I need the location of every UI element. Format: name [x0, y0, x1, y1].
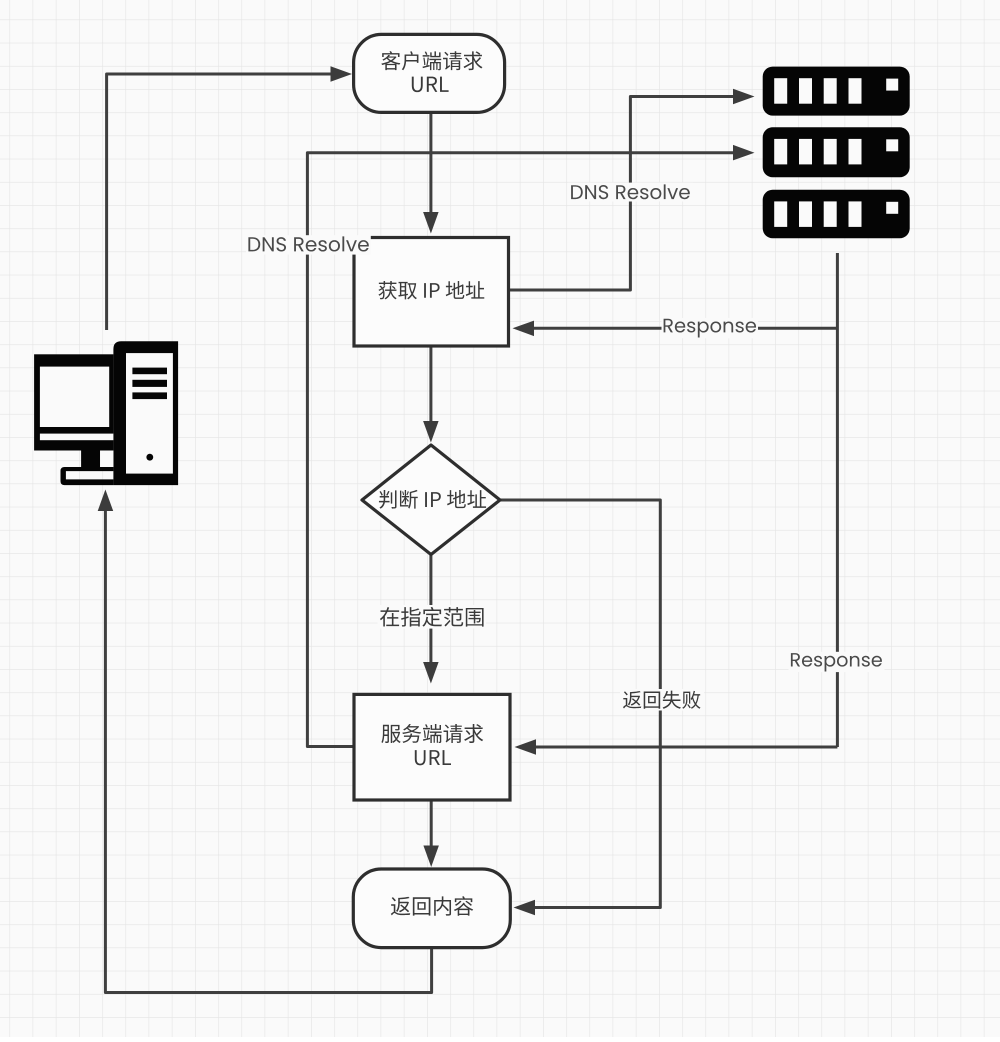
label bg: 返回失败 [620, 689, 704, 711]
arrowhead into return-content oval top [423, 846, 439, 868]
server 3 (bottom DNS server icon) [763, 190, 910, 239]
arrowhead up into computer bottom [98, 490, 114, 512]
wire: diamond right, 返回失败 to return-content oval [500, 500, 660, 908]
decision diamond: judge IP address [362, 445, 500, 555]
text: 服务端请求 (line 1 in server-request box) [381, 724, 483, 743]
arrowhead into get-IP box top [423, 212, 439, 234]
wire: get-IP box right, DNS Resolve to server 1 [509, 97, 733, 291]
label: Response (upper) [664, 319, 756, 338]
arrowhead above server-request box [423, 662, 439, 684]
computer icon: tower body [113, 341, 178, 485]
process box: server request URL [354, 694, 510, 800]
wire: return-content oval to computer (bottom feedback loop) [105, 511, 431, 993]
terminator: return content oval [353, 869, 510, 948]
arrowhead into return-content oval right edge [514, 900, 536, 915]
text: 返回内容 [391, 896, 473, 915]
wire: server-request box left, DNS Resolve to server 2 [307, 153, 733, 747]
label bg: Response (lower right) [789, 652, 885, 672]
text: 客户端请求 (line 1 in client oval) [381, 51, 482, 70]
label: 在指定范围 [380, 607, 484, 627]
computer icon: base bracket [61, 467, 114, 485]
label: DNS Resolve (right) [571, 184, 690, 199]
computer icon: tower vent 1 [132, 368, 167, 375]
computer icon: tower inner panel [126, 353, 173, 474]
label: 返回失败 [623, 691, 701, 709]
text: URL (line 2 in client oval) [412, 77, 449, 92]
text: URL (line 2 in server-request box) [415, 750, 451, 765]
computer icon: tower vent 3 [132, 392, 167, 399]
wire: client-request oval down to get-IP box [429, 113, 432, 213]
wire: diamond down to server-request box (在指定范围 branch) [429, 555, 432, 662]
server 1 (top DNS server icon) [763, 67, 910, 116]
computer icon: tower vent 2 [132, 380, 167, 387]
wire: Response branch to server-request box [536, 746, 837, 749]
arrowhead into server 1 [733, 89, 755, 104]
arrowhead into server-request box right edge [515, 739, 537, 755]
computer icon: tower power button [146, 454, 153, 461]
computer icon: monitor lower white strip [40, 434, 114, 441]
computer icon: monitor body [34, 354, 113, 450]
label: DNS Resolve (left) [248, 236, 368, 251]
arrowhead into diamond top [423, 421, 439, 443]
wire: Response branch to get-IP box [534, 327, 837, 330]
label bg: DNS Resolve (left) [246, 235, 371, 254]
arrowhead into client-request oval [331, 66, 353, 82]
label: Response (lower right) [791, 653, 882, 671]
wire: get-IP box down to decision diamond [429, 346, 432, 422]
computer icon: stand [81, 451, 100, 468]
text: 判断 IP 地址 [379, 490, 486, 509]
server 2 (middle DNS server icon) [763, 127, 910, 177]
text: 获取 IP 地址 [378, 281, 484, 299]
process box: get IP address [354, 238, 509, 347]
label bg: DNS Resolve (right) [569, 183, 693, 202]
computer icon: white gap right of stand [100, 451, 113, 468]
label bg: 在指定范围 [378, 605, 487, 629]
terminator: client request URL oval [354, 34, 505, 112]
wire: computer to client-request loop (left top) [107, 74, 336, 330]
computer icon: monitor screen [40, 367, 109, 427]
arrowhead into get-IP box right edge [513, 321, 535, 337]
label bg: Response (upper) [662, 318, 759, 338]
wire: server stack down, Response vertical trunk [836, 253, 839, 747]
arrowhead into server 2 [733, 145, 755, 161]
wire: server-request box down to return-content oval [430, 800, 433, 846]
